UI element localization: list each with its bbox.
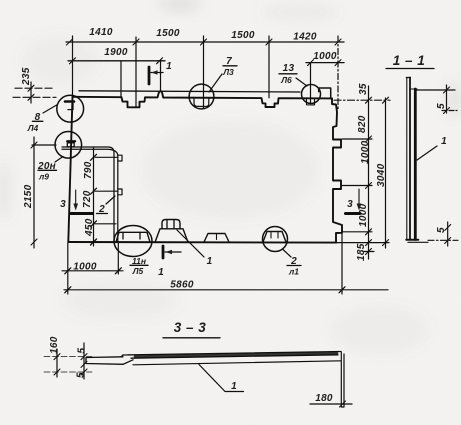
right dims vertical line xyxy=(368,86,370,259)
extension line x310.5 through circle 13 xyxy=(310,63,312,103)
extension dash-dot line x338 xyxy=(337,36,339,110)
label underline 11n xyxy=(130,264,148,266)
section 1-1 wall top cap xyxy=(406,77,410,79)
anchor mark in circle 20n/L9 xyxy=(67,140,75,142)
lifting loop 2 with arch xyxy=(155,229,188,243)
extension line x121 xyxy=(120,61,122,97)
section marker 1 (bottom) arrow xyxy=(165,251,181,253)
channel tab 1 xyxy=(118,155,122,161)
right extension y139 xyxy=(342,138,372,140)
extension line x136 through notch xyxy=(135,37,137,107)
section 3-3 bottom line xyxy=(133,361,341,365)
section 1-1 leader 1 xyxy=(417,146,437,160)
bottom edge extension right xyxy=(336,242,389,244)
dim 235 ticks xyxy=(28,85,34,100)
channel tab 2 xyxy=(118,189,122,195)
extension line x160.5 to bump xyxy=(160,61,162,92)
extension circle20n to 2150 xyxy=(32,144,56,146)
right edge of panel stepped xyxy=(332,98,342,242)
top-right corner tab xyxy=(319,88,331,98)
dim line 1000 bottom xyxy=(62,270,123,272)
section 1-1 title underline xyxy=(386,68,434,70)
lifting loop 4 (in circle 2/L1) xyxy=(263,232,286,243)
dim 235 dash line lower xyxy=(13,96,56,98)
section marker 1 (bottom) thick bar xyxy=(162,246,165,258)
dimension line 1900 xyxy=(68,60,165,62)
right extension y100.2 dash-dot xyxy=(334,99,390,101)
section 3-3 slab top skin lower line xyxy=(131,355,338,358)
leader to label 1 xyxy=(177,230,204,257)
detail circle 8/L4 xyxy=(57,95,84,122)
extension y154.5 xyxy=(95,156,118,158)
section marker 3 (left) thick bar xyxy=(71,212,93,215)
bottom edge of panel xyxy=(68,241,336,244)
label underline 7 xyxy=(223,65,237,67)
section 3-3 left tongue xyxy=(86,357,123,365)
section 3-3 taper xyxy=(123,360,133,365)
section 1-1 bottom cap xyxy=(406,239,418,241)
tick marks top dimension line xyxy=(67,39,342,45)
overall dim 3040 line xyxy=(385,98,387,248)
section 3-3 right leg xyxy=(341,352,344,407)
section marker 3 (right) thick bar xyxy=(346,212,361,215)
extension line x269 xyxy=(268,36,270,98)
bottom extension x342 xyxy=(341,233,343,294)
detail circle 20n/L9 xyxy=(55,132,82,159)
top edge upper line xyxy=(79,91,300,92)
section 3-3 leader 1 xyxy=(199,365,244,392)
section marker 3 (left) arrow xyxy=(75,190,77,208)
lifting loop 3 (small) xyxy=(204,234,229,243)
label underline 13 xyxy=(279,73,297,75)
section 3-3 top skin dark fill xyxy=(135,353,337,356)
section 3-3 dims left 160 xyxy=(56,349,58,377)
leader 20n/L9 xyxy=(55,157,63,163)
bottom extension x113.8 xyxy=(117,243,119,274)
top edge of panel with notches xyxy=(73,91,333,107)
label underline 2 xyxy=(287,265,301,267)
detail ellipse 11n/L5 xyxy=(114,226,152,257)
lifting loop 1 (in ellipse) xyxy=(116,232,150,242)
leader 2/L1 xyxy=(283,250,291,258)
right extension y231.8 xyxy=(343,231,372,233)
section 3-3 dims left 5+5 xyxy=(83,343,85,379)
detail circle 13/L6 xyxy=(302,85,321,104)
section 1-1 top dim 5 xyxy=(416,89,455,91)
channel element top double line xyxy=(62,147,114,242)
section 3-3 slab top skin upper line xyxy=(123,352,341,356)
extension y190 xyxy=(95,190,118,192)
dim 235 vertical line xyxy=(30,82,32,103)
right extension y185.5 xyxy=(342,185,372,187)
anchor mark in circle 8/L4 xyxy=(65,100,74,103)
detail circle 2/L1 xyxy=(263,227,288,252)
bottom extension left x67.8 xyxy=(67,243,69,294)
section 1-1 wall right thick line xyxy=(414,89,417,239)
weld mark in circle 13 xyxy=(307,99,315,105)
leader 13/L6 xyxy=(296,78,307,86)
extension y224.5 xyxy=(93,223,116,225)
section 1-1 wall left lines xyxy=(406,78,408,240)
section 3-3 title underline xyxy=(163,337,220,339)
label underline 20n xyxy=(38,169,57,171)
detail circle 7/L3 xyxy=(189,84,214,109)
dim column 790/720/450 line xyxy=(93,148,95,246)
section 1-1 top jog xyxy=(410,88,417,90)
leader 7/L3 xyxy=(209,74,222,92)
top dimension line xyxy=(66,41,344,43)
dim line 5860 xyxy=(64,289,388,291)
weld mark in circle 7 xyxy=(194,98,209,106)
section 1-1 bottom dim 5 xyxy=(408,241,428,243)
section 3-3 top skin step xyxy=(121,355,123,357)
label underline 8 xyxy=(32,120,43,122)
section marker 3 (right) arrow xyxy=(358,189,360,208)
dim 235 dash line upper xyxy=(15,87,54,89)
section marker 1 (top) thick bar xyxy=(148,67,151,84)
leader 8/L4 xyxy=(43,105,58,114)
right extension y251.5 xyxy=(363,251,374,253)
extension line x203.5 through circle xyxy=(203,36,205,109)
dim 2150 vertical line xyxy=(33,137,35,248)
section marker 1 (top) arrow xyxy=(151,72,163,74)
left edge of panel xyxy=(68,97,72,242)
extension line left x72.5 xyxy=(72,36,74,97)
dimension line 1000 top right xyxy=(306,62,344,64)
